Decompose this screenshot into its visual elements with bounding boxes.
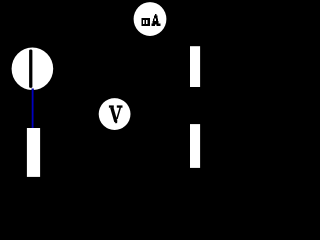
resistor R3 (right bottom) <box>190 124 200 168</box>
milliammeter label letter A <box>152 14 161 26</box>
voltmeter V body <box>99 98 131 130</box>
cell G1 plate bar <box>29 50 32 88</box>
milliammeter label letter m <box>142 18 151 26</box>
milliammeter mA body <box>134 2 167 36</box>
wire (blue, cell to resistor R1) <box>32 89 34 129</box>
resistor R2 (right top) <box>190 46 200 87</box>
voltmeter label letter V <box>109 105 123 123</box>
cell G1 (white circle body) <box>12 48 54 91</box>
resistor R1 (left) <box>27 128 40 177</box>
